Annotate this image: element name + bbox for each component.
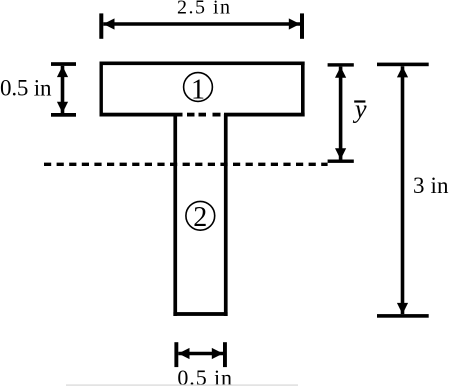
svg-text:2.5 in: 2.5 in [177,0,230,19]
svg-text:y: y [352,95,367,124]
svg-text:2: 2 [193,202,207,233]
svg-text:3 in: 3 in [413,173,449,198]
svg-text:0.5 in: 0.5 in [177,365,232,386]
svg-text:0.5 in: 0.5 in [0,75,52,100]
svg-text:1: 1 [191,74,205,105]
